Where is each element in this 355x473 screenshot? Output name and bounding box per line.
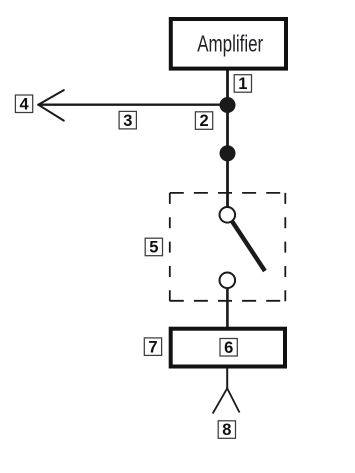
wire: horizontal tap to arrow (net 3) [39, 104, 228, 106]
switch lower contact [220, 273, 236, 289]
label 1 [234, 75, 251, 93]
svg-text:7: 7 [148, 338, 157, 356]
svg-text:2: 2 [200, 112, 209, 130]
svg-text:3: 3 [123, 112, 132, 130]
dashed enclosure (switch unit 5) [170, 193, 285, 301]
antenna symbol (item 8) [213, 388, 240, 413]
arrow head (external connection 4) [38, 90, 64, 121]
junction node (dot) lower [220, 145, 236, 161]
svg-text:6: 6 [224, 339, 233, 357]
label 4 [15, 95, 32, 113]
switch lever [232, 222, 265, 272]
junction node (dot) upper [220, 97, 236, 113]
label 7 [144, 338, 161, 356]
amplifier block [171, 19, 286, 69]
wire: switch to tuner box [226, 288, 229, 328]
label 8 [218, 421, 235, 439]
svg-text:5: 5 [149, 239, 158, 257]
tuner box (item 6/7) [171, 329, 285, 367]
label 2 [195, 112, 212, 130]
svg-text:4: 4 [20, 95, 30, 113]
switch upper contact [220, 207, 236, 223]
label 5 [145, 238, 162, 256]
svg-text:Amplifier: Amplifier [197, 31, 263, 57]
svg-text:1: 1 [238, 75, 247, 93]
wire: tuner box to antenna [226, 368, 228, 389]
wire: amplifier output down to switch [226, 70, 229, 208]
svg-text:8: 8 [222, 421, 231, 439]
label 6 [220, 339, 237, 357]
label 3 [119, 111, 136, 129]
